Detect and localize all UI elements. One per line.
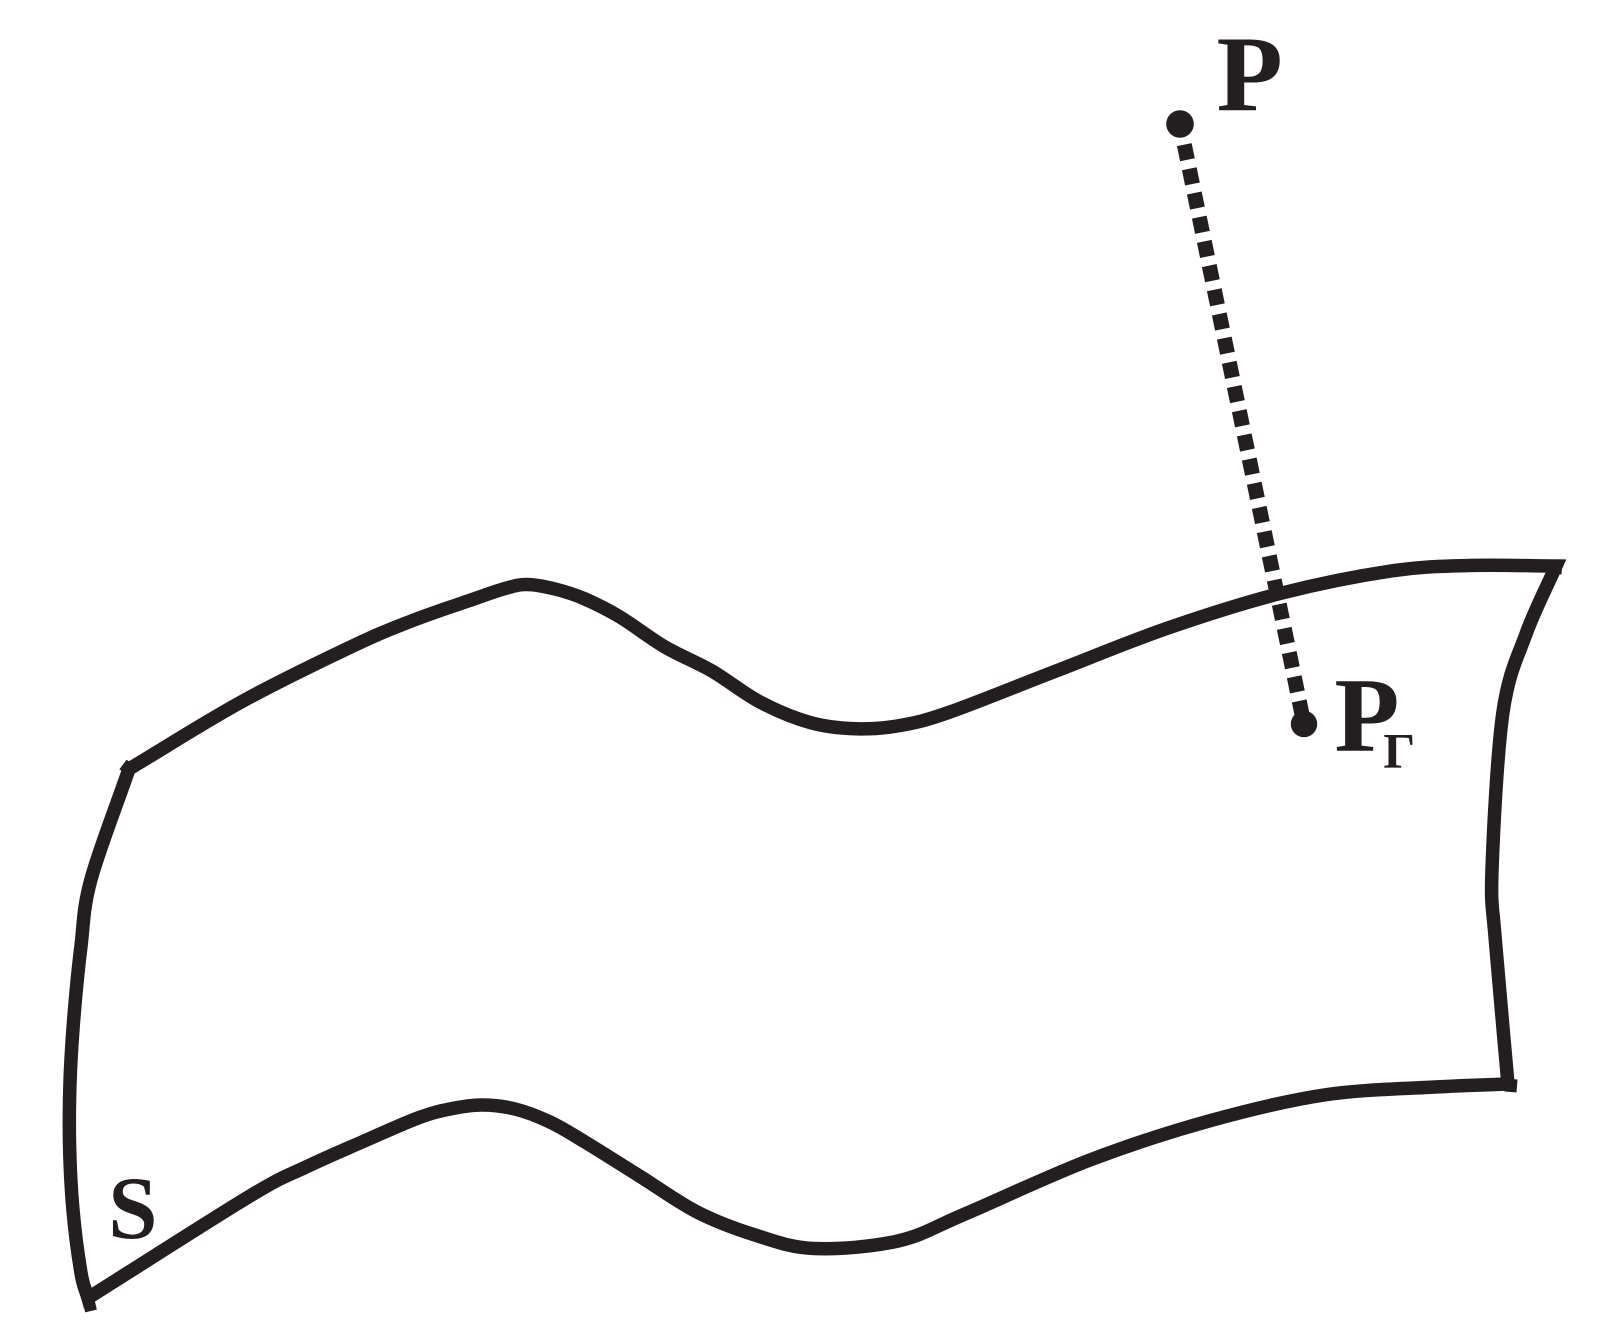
corner overshoot top-right	[1550, 567, 1562, 568]
surface S outline	[69, 565, 1556, 1298]
node P-gamma dot	[1291, 711, 1317, 737]
corner overshoot top-left	[123, 765, 129, 770]
corner overshoot bottom-right	[1505, 1085, 1517, 1086]
svg-text:S: S	[108, 1160, 157, 1258]
wire dashed projection line P to P-gamma	[1184, 145, 1304, 724]
corner overshoot bottom-left	[88, 1298, 91, 1311]
svg-text:Γ: Γ	[1383, 723, 1415, 779]
svg-text:P: P	[1217, 15, 1283, 135]
node P dot	[1166, 110, 1194, 138]
